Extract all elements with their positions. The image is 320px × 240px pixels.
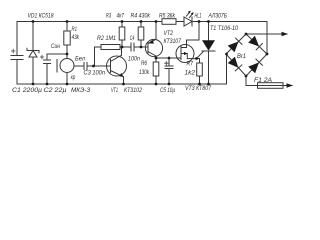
- resistor R1: [64, 22, 70, 55]
- node bridge right: [266, 53, 269, 56]
- svg-text:R7: R7: [187, 62, 194, 68]
- wire node A (R1/C2/mic): [47, 54, 67, 59]
- transistor VT1: [107, 47, 127, 84]
- node VT2 emitter top: [155, 20, 158, 23]
- svg-text:Br1: Br1: [237, 54, 246, 60]
- svg-text:R4 430k: R4 430k: [131, 14, 151, 20]
- node R3 top: [121, 20, 124, 23]
- svg-text:МКЭ-3: МКЭ-3: [71, 88, 91, 94]
- svg-text:HL1: HL1: [195, 14, 202, 20]
- svg-text:кр: кр: [71, 75, 76, 81]
- svg-text:R5 36k: R5 36k: [159, 14, 176, 20]
- node VD1 top: [32, 20, 35, 23]
- svg-text:Т1 Т106-10: Т1 Т106-10: [210, 26, 239, 32]
- wire mains terminal top: [246, 32, 288, 36]
- svg-text:43k: 43k: [72, 35, 80, 41]
- node R4 top: [140, 20, 143, 23]
- svg-text:VT3 КТ807: VT3 КТ807: [185, 86, 212, 92]
- bridge rectifier Br1 edges: [226, 34, 267, 76]
- node VT1 base: [92, 65, 95, 68]
- node VT1 collector: [121, 46, 124, 49]
- svg-text:C3 100n: C3 100n: [84, 71, 106, 77]
- bridge diode D3 (bottom-left): [228, 57, 242, 71]
- junction dots: [32, 20, 269, 85]
- microphone BM1 МКЭ-3: [57, 59, 84, 85]
- svg-text:R2 1М1: R2 1М1: [97, 36, 116, 42]
- svg-text:VT1: VT1: [111, 88, 118, 94]
- capacitor C1: [11, 49, 23, 59]
- node VT2 collector: [155, 57, 158, 60]
- node VD1 bottom: [32, 83, 35, 86]
- wire bottom bus: [17, 83, 227, 85]
- node R6 bottom: [155, 83, 158, 86]
- thyristor T1: [197, 22, 216, 85]
- node VT3 collector top: [198, 20, 201, 23]
- svg-text:VT2: VT2: [164, 31, 174, 37]
- node mic top: [66, 53, 69, 56]
- wire mains terminal bottom: [283, 83, 293, 87]
- zener diode VD1: [27, 22, 39, 85]
- resistor R7: [197, 59, 203, 85]
- svg-text:C1 2200µ: C1 2200µ: [12, 88, 43, 94]
- node bridge left: [225, 53, 228, 56]
- node C5 bottom: [168, 83, 171, 86]
- fuse F1: [246, 76, 283, 88]
- node bridge top: [245, 33, 248, 36]
- node VT2 base: [140, 46, 143, 49]
- node T1 anode top: [207, 20, 210, 23]
- svg-text:130k: 130k: [139, 70, 150, 76]
- LED HL1: [184, 11, 194, 26]
- svg-text:КТ3102: КТ3102: [124, 88, 143, 94]
- svg-text:VD1 КС518: VD1 КС518: [28, 14, 55, 20]
- capacitor C5: [165, 58, 173, 84]
- resistor R6: [153, 58, 159, 84]
- wire bridge left riser: [226, 54, 228, 84]
- svg-text:F1 2A: F1 2A: [254, 78, 272, 84]
- capacitor C3: [84, 63, 111, 70]
- svg-text:C2 22µ: C2 22µ: [44, 88, 68, 94]
- wire VT2 collector row: [156, 57, 181, 59]
- svg-text:R6: R6: [141, 61, 148, 67]
- svg-text:Син: Син: [51, 44, 61, 50]
- bridge diode D4 (bottom-right): [248, 59, 262, 73]
- svg-text:C4: C4: [130, 36, 135, 42]
- svg-text:1k2: 1k2: [185, 71, 196, 77]
- wire top bus: [17, 21, 267, 23]
- node T1 gate: [195, 57, 198, 60]
- transistor VT2: [145, 22, 162, 58]
- svg-text:R3: R3: [106, 14, 111, 20]
- svg-text:R1: R1: [72, 27, 78, 33]
- capacitor C4: [122, 43, 148, 51]
- svg-text:КТ3107: КТ3107: [164, 39, 182, 45]
- svg-text:100n: 100n: [128, 57, 141, 63]
- capacitor C2: [40, 54, 50, 84]
- resistor R2: [95, 45, 123, 67]
- svg-text:4k7: 4k7: [117, 14, 125, 20]
- resistor R3: [119, 22, 125, 48]
- resistor R4: [138, 22, 144, 48]
- transistor VT3: [176, 22, 199, 63]
- node C2 bottom: [46, 83, 49, 86]
- wire bridge right riser: [266, 22, 268, 55]
- svg-text:АЛ307Б: АЛ307Б: [208, 14, 227, 20]
- node R1 top: [66, 20, 69, 23]
- node bridge bottom: [245, 75, 248, 78]
- node mic bottom: [66, 83, 69, 86]
- node T1 cathode bottom: [207, 83, 210, 86]
- wire left column (C1 leads): [16, 22, 18, 85]
- bridge diode D2 (top-right): [248, 36, 262, 50]
- node VT1 emitter bottom: [122, 83, 125, 86]
- svg-text:C5 10µ: C5 10µ: [160, 88, 175, 94]
- bridge diode D1 (top-left): [228, 38, 242, 52]
- resistor R5: [162, 19, 176, 25]
- node R7 bottom: [198, 83, 201, 86]
- node C5 top: [168, 57, 171, 60]
- svg-text:Бел: Бел: [75, 57, 86, 63]
